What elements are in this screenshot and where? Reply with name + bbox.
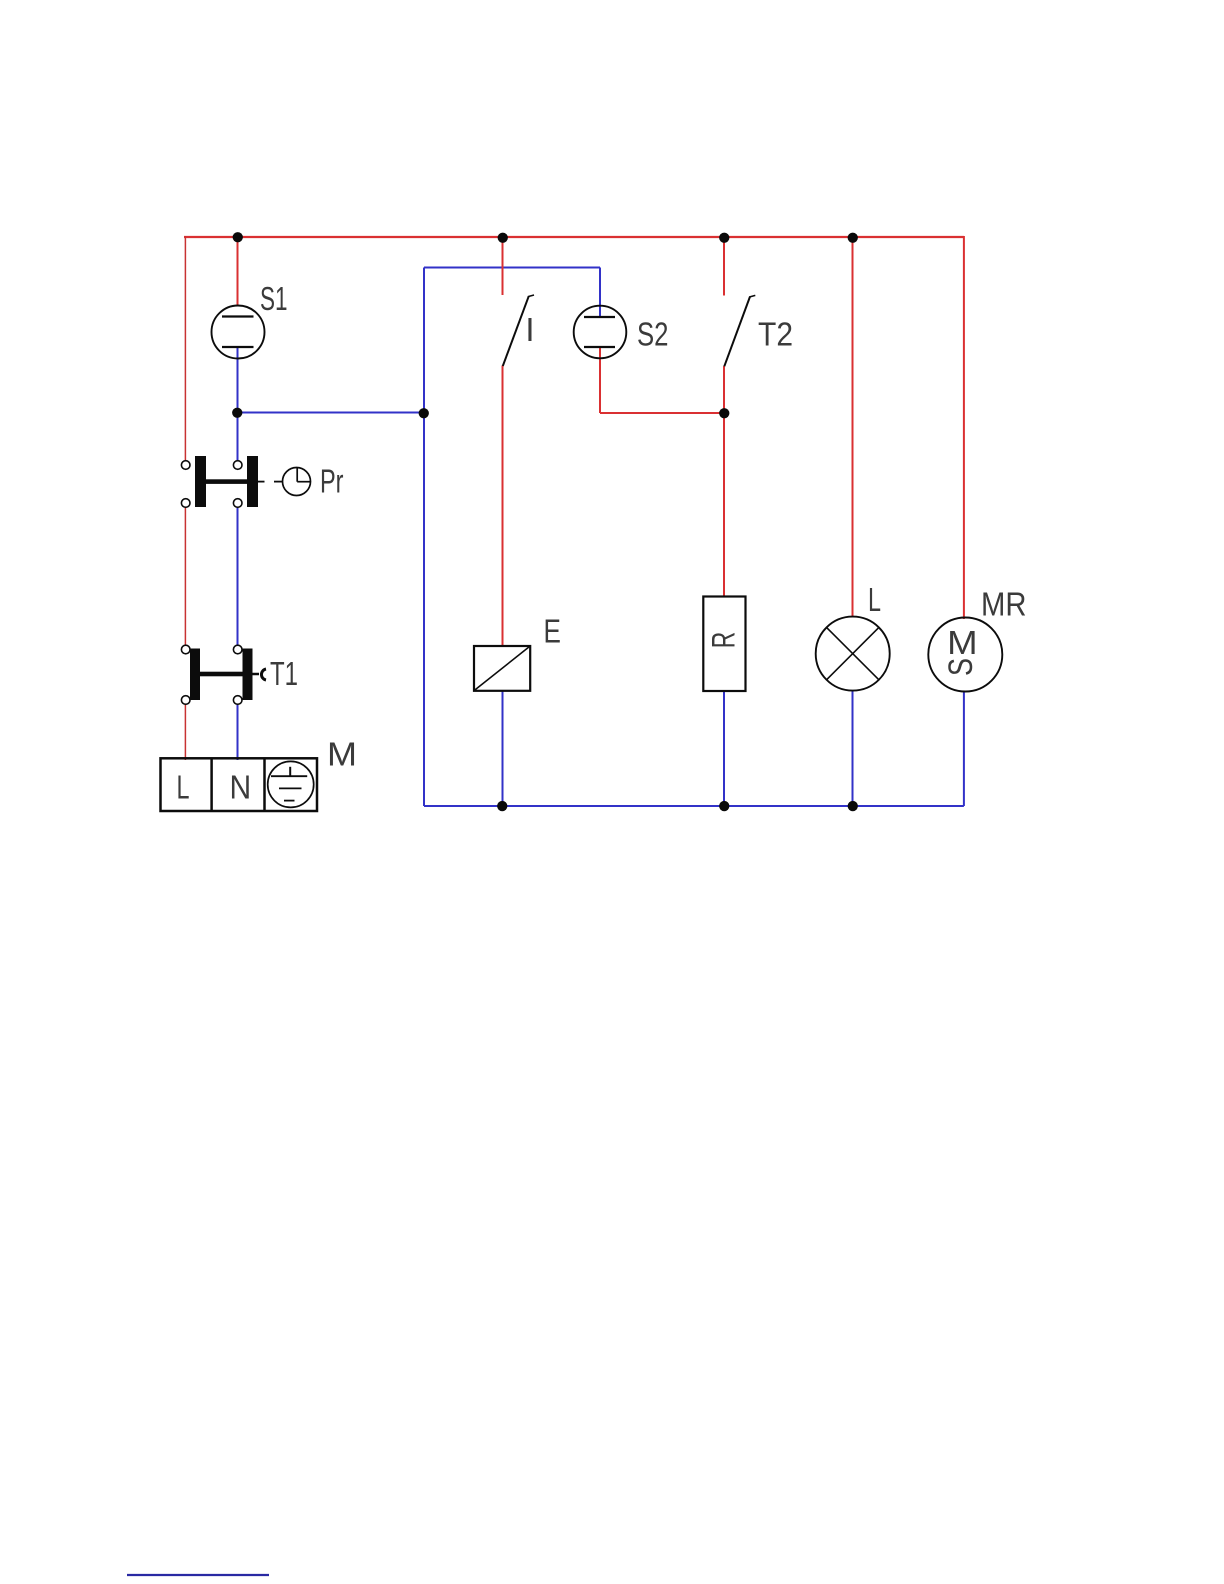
wire: S2 to T2 node horizontal (red) [600,412,724,414]
Pr terminal top-left [181,461,190,470]
wire: S2 top drop (blue) [599,268,601,318]
wire: S1 bottom to node A (blue) [237,347,239,413]
terminal block M: outline [161,758,318,811]
svg-text:T1: T1 [270,655,298,692]
wire: top L bus (red) [184,236,964,238]
svg-text:L: L [177,769,190,806]
wire: bus drop to lamp L (red) [852,237,854,618]
wire: R to bottom N bus (blue) [723,691,725,806]
junction on bus at I [498,233,508,243]
svg-text:T2: T2 [758,316,793,353]
svg-text:L: L [868,581,881,618]
junction bottom bus at lamp [848,801,858,811]
wire: switch I to E heater (red) [502,366,504,647]
switch S1 body [212,306,265,359]
lamp L body [816,617,890,691]
Pr terminal top-right [233,461,242,470]
T1 terminal top-left [181,645,190,654]
wire: bus drop to switch T2 (red) [723,237,725,296]
wire: node A horizontal to node B (blue) [238,412,425,414]
footer blue underline [127,1574,269,1576]
switch S2 body [574,306,627,359]
svg-text:I: I [525,311,534,348]
wire: drop from bus to S1 (red) [237,237,239,306]
thermostat contact T1: left pole bar [190,649,200,701]
T1 terminal bottom-right [233,696,242,705]
thermostat contact T1: crossbar [195,672,247,677]
svg-text:S: S [942,658,980,676]
Pr terminal bottom-left [181,499,190,508]
junction on bus at S1 [233,232,243,242]
terminal block M: divider 1 [210,758,213,811]
wire: bus right corner drop to motor MR (red) [963,236,965,619]
wire: bottom N bus (blue) [424,805,964,807]
heater E body [474,646,530,691]
wire: N between Pr and T1 (blue) [237,508,239,646]
svg-text:MR: MR [981,586,1027,623]
motor MR body [928,618,1002,692]
wire: left L drop to Pr (red) [184,236,186,461]
Pr actuator stub [258,481,265,483]
junction on bus at lamp [848,233,858,243]
svg-text:R: R [706,632,742,649]
wire: N from T1 to terminal N (blue) [237,705,239,761]
terminal block M: divider 2 [263,758,266,811]
wire: E to bottom N bus (blue) [502,691,504,806]
junction on bus at T2 [719,233,729,243]
svg-text:S2: S2 [637,316,669,353]
wire: lamp L to bottom N bus (blue) [852,690,854,806]
svg-text:S1: S1 [260,280,288,317]
svg-text:M: M [327,736,357,773]
wire: motor MR to bottom N bus (blue) [963,691,965,806]
resistor R body [703,597,745,692]
programmer contact Pr: right pole bar [247,456,258,507]
junction bottom bus at E [497,801,507,811]
T1 terminal bottom-left [181,696,190,705]
T1 terminal top-right [233,645,242,654]
junction node B [419,408,429,418]
junction at T2/R node [719,408,729,418]
wire: L between Pr and T1 (red) [184,508,186,646]
wire: N riser vertical x424 (blue) [423,268,425,807]
svg-text:N: N [230,769,252,806]
earth symbol [271,767,307,801]
wire: L from T1 to terminal L (red) [184,705,186,761]
programmer contact Pr: left pole bar [195,456,206,507]
svg-text:Pr: Pr [320,463,344,500]
wire: N top horizontal to S2 (blue) [424,267,600,269]
Pr clock symbol [283,468,311,496]
svg-text:M: M [947,624,978,661]
switch T2 blade [724,295,755,366]
switch I blade [503,295,534,366]
thermostat contact T1: right pole bar [243,649,253,701]
junction bottom bus at R [719,801,729,811]
T1 actuator stub and hook [253,669,267,680]
wire: bus drop to switch I (red) [502,237,504,295]
wire: T2 to R resistor (red) [723,366,725,597]
junction node A [232,408,242,418]
wire: N from node A to Pr (blue) [237,413,239,461]
wire: S2 bottom drop (red) [599,347,601,413]
earth terminal circle [268,761,314,807]
programmer contact Pr: crossbar [200,479,253,484]
svg-text:E: E [544,613,561,650]
Pr actuator dash [274,481,282,483]
Pr terminal bottom-right [233,499,242,508]
